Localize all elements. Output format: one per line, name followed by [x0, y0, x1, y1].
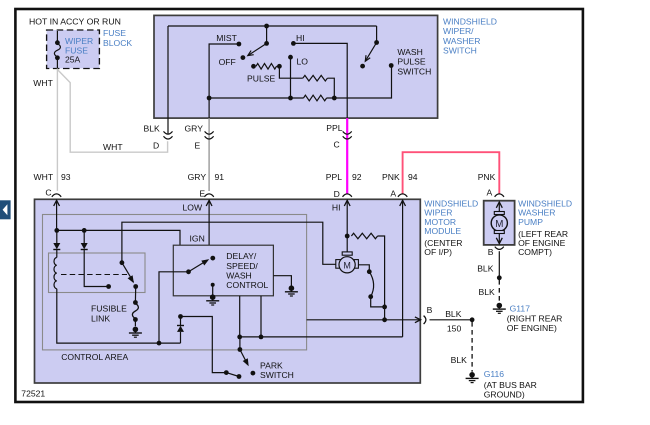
wire BLK to connector D [167, 118, 169, 134]
label GRY 91 [188, 172, 225, 182]
resistor (hi speed) [351, 233, 384, 307]
svg-text:WHT: WHT [34, 172, 54, 182]
node HI junction [345, 234, 350, 239]
wire BLK feed vertical [167, 26, 169, 118]
node LO contact [288, 55, 293, 60]
wire BLK dashed to G116 [471, 322, 473, 372]
svg-text:72521: 72521 [21, 388, 45, 398]
svg-text:BLOCK: BLOCK [103, 38, 132, 48]
delay switch [186, 256, 215, 274]
wire B output bus [307, 319, 421, 321]
node relay NO contact [133, 284, 138, 289]
svg-text:WIPER/: WIPER/ [443, 26, 474, 36]
diode D2 [81, 230, 88, 249]
relay armature [120, 260, 134, 283]
wire LO contact drop [290, 57, 292, 98]
svg-text:PULSE: PULSE [247, 73, 275, 83]
wire delay output 1 [239, 296, 241, 337]
svg-text:WHT: WHT [103, 142, 123, 152]
svg-text:E: E [195, 140, 201, 150]
node park arc top [367, 269, 372, 274]
wash pulse switch arm [360, 26, 379, 69]
svg-text:FUSE: FUSE [103, 28, 126, 38]
connector E at module [199, 188, 213, 198]
wire motor right to park arc [358, 265, 369, 272]
wiper motor M1 [336, 252, 359, 273]
svg-text:SWITCH: SWITCH [443, 45, 477, 55]
svg-text:LOW: LOW [183, 202, 203, 212]
svg-text:25A: 25A [65, 55, 81, 65]
node wash contact [389, 63, 394, 68]
connector B at module exit [424, 305, 433, 324]
svg-text:D: D [334, 189, 340, 199]
wire junction down to B bus [384, 307, 386, 320]
svg-text:92: 92 [352, 172, 362, 182]
svg-text:93: 93 [61, 172, 71, 182]
svg-text:WHT: WHT [33, 78, 53, 88]
ground (fusible link) [133, 327, 139, 333]
wire HI contact to PPL column [293, 43, 347, 118]
wire diode D3 top [178, 314, 183, 319]
park switch arm [238, 347, 256, 375]
svg-text:CONTROL AREA: CONTROL AREA [61, 352, 128, 362]
wire GRY to connector E [208, 118, 210, 191]
pump exit arrow [496, 234, 502, 244]
svg-text:C: C [45, 188, 51, 198]
wire park arc to resistor junction [371, 297, 385, 307]
label WINDSHIELD WIPER/WASHER SWITCH [443, 17, 497, 56]
svg-text:HI: HI [296, 33, 305, 43]
wire pulse resistor to delay resistor [279, 66, 302, 78]
ground (delay box) [206, 283, 219, 305]
wire PNK bus inside module [240, 336, 403, 338]
label PPL 92 [326, 172, 362, 182]
node GRY junction [207, 96, 212, 101]
svg-text:91: 91 [215, 172, 225, 182]
washer pump motor [491, 212, 507, 234]
label WINDSHIELD WIPER MOTOR MODULE [424, 199, 478, 258]
svg-text:SPEED/: SPEED/ [226, 261, 258, 271]
svg-text:WASH: WASH [397, 47, 422, 57]
svg-text:BLK: BLK [477, 263, 494, 273]
wire switch top bus [168, 25, 377, 27]
wire park feed [181, 317, 227, 373]
control area gray box [43, 215, 307, 350]
node top tap [264, 24, 269, 29]
wire park pivot riser [239, 337, 241, 350]
svg-text:BLK: BLK [445, 309, 462, 319]
svg-text:LINK: LINK [91, 313, 110, 323]
resistor upper (low speed) [303, 75, 335, 98]
svg-text:MIST: MIST [216, 33, 237, 43]
svg-text:OF I/P): OF I/P) [424, 247, 452, 257]
node relay NC contact [106, 284, 111, 289]
svg-text:M: M [495, 219, 503, 230]
fuse block dashed box [47, 30, 100, 69]
svg-text:GRY: GRY [188, 172, 207, 182]
svg-text:WASHER: WASHER [443, 36, 480, 46]
windshield washer pump box [484, 201, 515, 245]
exit arrow B [415, 317, 421, 323]
label DELAY/SPEED/WASH CONTROL [226, 251, 268, 290]
svg-text:SWITCH: SWITCH [260, 370, 294, 380]
svg-text:PPL: PPL [326, 123, 342, 133]
connector E (inline) [205, 131, 214, 139]
svg-text:G117: G117 [510, 303, 531, 313]
relay inner gray box [49, 253, 146, 293]
resistor lower [304, 95, 327, 101]
svg-text:PNK: PNK [382, 172, 400, 182]
svg-text:SWITCH: SWITCH [397, 66, 431, 76]
svg-text:PARK: PARK [260, 360, 283, 370]
entry arrow C/WHT [54, 200, 60, 230]
svg-text:D: D [153, 140, 159, 150]
svg-text:GROUND): GROUND) [484, 389, 525, 399]
svg-text:BLK: BLK [479, 287, 496, 297]
connector C at module [45, 188, 61, 198]
node PNK bus 1 [237, 335, 242, 340]
relay linkage (dashed) [61, 274, 127, 276]
pump entry arrow [496, 202, 502, 212]
svg-text:B: B [488, 247, 494, 257]
svg-text:150: 150 [447, 323, 462, 333]
svg-text:HOT IN ACCY OR RUN: HOT IN ACCY OR RUN [29, 16, 121, 26]
svg-text:(RIGHT REAR: (RIGHT REAR [507, 313, 563, 323]
fusible link [132, 287, 138, 327]
wire relay common to motor feed [122, 222, 337, 264]
diode D1 [53, 230, 60, 257]
relay coil [54, 258, 57, 289]
resistor pulse [251, 64, 282, 70]
svg-text:B: B [427, 305, 433, 315]
svg-text:CONTROL: CONTROL [226, 280, 268, 290]
wire WHT branch to connector D [57, 70, 167, 153]
svg-text:COMPT): COMPT) [518, 247, 552, 257]
connector B at pump [488, 247, 504, 257]
node diode junction [82, 228, 87, 233]
label WIPER FUSE [65, 36, 93, 56]
node resistor/park junction [382, 305, 387, 310]
svg-text:IGN: IGN [190, 234, 205, 244]
label FUSE BLOCK [103, 28, 132, 48]
svg-text:BLK: BLK [451, 355, 468, 365]
svg-text:PULSE: PULSE [397, 57, 425, 67]
svg-text:C: C [334, 140, 340, 150]
svg-text:OFF: OFF [219, 57, 236, 67]
svg-text:MODULE: MODULE [424, 226, 461, 236]
svg-text:WASH: WASH [226, 270, 251, 280]
wire IGN bus [57, 230, 180, 245]
connector A at pump [487, 187, 505, 197]
ground (right of delay box) [289, 285, 295, 291]
label WINDSHIELD WASHER PUMP [518, 199, 572, 258]
node pump ground splice [497, 275, 502, 280]
wire GRY column inside box [208, 98, 210, 118]
diode D3 [177, 317, 184, 344]
svg-text:E: E [199, 188, 205, 198]
label PNK 94 [382, 172, 418, 182]
park cam arc [369, 272, 373, 297]
wire BLK dashed to G117 [498, 280, 500, 303]
svg-text:(AT BUS BAR: (AT BUS BAR [484, 380, 537, 390]
windshield wiper/washer switch box [154, 15, 438, 118]
svg-text:PUMP: PUMP [518, 217, 543, 227]
wire WHT from fuse to connector C (main) [56, 69, 58, 191]
svg-text:WIPER: WIPER [65, 36, 93, 46]
wire PNK harness [403, 152, 500, 193]
entry arrow E/LOW [206, 200, 212, 245]
entry arrow A/PNK [400, 200, 406, 337]
windshield wiper motor module box [35, 199, 421, 383]
svg-text:94: 94 [408, 172, 418, 182]
label FUSIBLE LINK [91, 304, 127, 324]
park switch contacts [224, 370, 242, 379]
svg-text:LO: LO [297, 57, 309, 67]
svg-text:A: A [390, 188, 396, 198]
connector C (inline) [343, 131, 352, 139]
wiper mode switch arm (to OFF) [241, 41, 270, 60]
svg-text:OF ENGINE): OF ENGINE) [507, 323, 557, 333]
wiper fuse 25A [54, 31, 60, 69]
node LO bottom junction [288, 96, 293, 101]
wire delay switch to rail [159, 272, 189, 343]
wire PPL to connector C [346, 118, 348, 193]
wire bottom bus to wash contact [327, 66, 392, 98]
label (RIGHT REAR OF ENGINE) [507, 313, 563, 333]
wire BLK 150 [430, 319, 473, 321]
wire HI to motor [346, 236, 348, 252]
svg-text:BLK: BLK [144, 124, 161, 134]
node G116 branch [470, 317, 475, 322]
label WHT 93 [34, 172, 71, 182]
svg-text:FUSIBLE: FUSIBLE [91, 304, 127, 314]
svg-text:A: A [487, 187, 493, 197]
node PNK bus 2 [259, 335, 264, 340]
wire pump BLK [498, 251, 500, 278]
wire switch bottom bus [209, 97, 303, 99]
connector D (inline) [164, 131, 173, 139]
wire coil to ground rail [57, 289, 181, 343]
svg-text:PNK: PNK [478, 172, 496, 182]
node HI contact [291, 41, 296, 46]
svg-text:M: M [343, 261, 351, 271]
entry arrow D/HI [344, 200, 350, 236]
wire delay box stub to ground [273, 276, 291, 286]
svg-text:HI: HI [332, 202, 341, 212]
wire diode D2 to relay NC contact [84, 250, 108, 287]
wire delay output 2 [260, 296, 262, 337]
node WHT junction [54, 228, 59, 233]
svg-text:G116: G116 [484, 369, 505, 379]
label (AT BUS BAR GROUND) [484, 380, 537, 400]
node rail junction [157, 341, 162, 346]
svg-text:WINDSHIELD: WINDSHIELD [443, 17, 497, 27]
svg-text:DELAY/: DELAY/ [226, 251, 257, 261]
svg-text:GRY: GRY [185, 124, 204, 134]
left navigation tab [0, 200, 11, 219]
node resistor junction [332, 96, 337, 101]
wire pivot drop [266, 26, 268, 43]
ground G117 [497, 303, 503, 309]
node MIST contact [237, 42, 242, 47]
connector D at module [334, 189, 352, 199]
delay/speed/wash control box [173, 245, 273, 296]
ground G116 [469, 372, 475, 378]
label WASH PULSE SWITCH [397, 47, 431, 77]
node B bus junction [382, 317, 387, 322]
wire MIST contact to GRY column [209, 44, 239, 98]
label PARK SWITCH [260, 360, 294, 380]
connector A at module [390, 188, 407, 198]
node park arc bottom [368, 294, 373, 299]
svg-text:PPL: PPL [326, 172, 342, 182]
